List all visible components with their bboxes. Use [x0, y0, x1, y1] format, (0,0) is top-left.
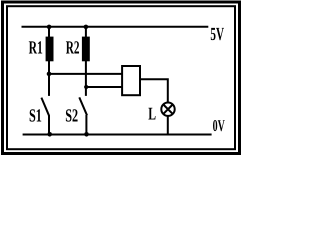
- svg-text:S2: S2: [65, 106, 78, 126]
- svg-text:5V: 5V: [210, 25, 224, 45]
- svg-text:L: L: [148, 103, 156, 123]
- svg-text:R2: R2: [66, 39, 80, 59]
- svg-text:S1: S1: [29, 106, 42, 126]
- svg-text:0V: 0V: [213, 116, 225, 135]
- svg-text:R1: R1: [29, 39, 43, 59]
